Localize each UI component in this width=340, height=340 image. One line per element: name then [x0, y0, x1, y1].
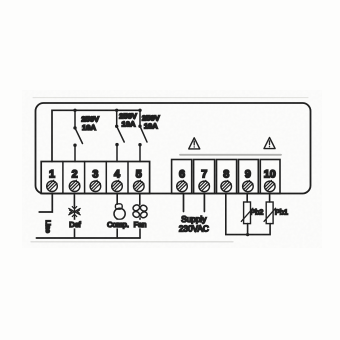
scan artifact streak top — [33, 97, 308, 99]
wire: fan to bottom bus — [139, 218, 141, 238]
wire: terminal 2 to defrost heater — [73, 194, 75, 206]
probe Pb2 (thermistor) — [241, 202, 253, 235]
wire: terminal 8 to probe common — [226, 194, 270, 235]
wire: terminal 1 to Line — [39, 194, 52, 213]
label Fan — [133, 220, 148, 229]
terminal 7 — [194, 160, 215, 194]
fan icon — [132, 204, 148, 219]
wire: terminal 6 supply — [183, 194, 185, 212]
terminal 1 — [47, 169, 58, 192]
terminal 9 — [239, 160, 259, 194]
label Comp. — [107, 220, 130, 229]
wire: compressor to bottom bus — [116, 220, 118, 238]
label Def — [68, 220, 83, 229]
wire: terminal 9 to Pb2 — [246, 194, 248, 203]
scan artifact streak above right terminal block — [180, 154, 281, 156]
wire: bottom return bus — [36, 237, 140, 239]
relay contact K2 (above terminal 4) — [115, 110, 124, 161]
terminal 2 — [69, 169, 80, 192]
wire: terminal 5 to fan — [139, 194, 141, 205]
node: Pb2 junction — [246, 233, 249, 236]
warning symbol W2 — [264, 138, 275, 149]
terminal 10 — [260, 160, 280, 194]
terminal block 1-5 — [41, 162, 149, 194]
wire: defrost to bottom bus — [74, 218, 76, 239]
defrost icon (snowflake) — [69, 206, 80, 218]
terminal 3 — [90, 169, 101, 192]
wire: terminal 10 to Pb1 — [269, 194, 271, 203]
scan artifact streak bottom — [31, 241, 233, 243]
wire: terminal 4 to compressor — [116, 194, 118, 205]
wire: terminal 7 supply — [203, 194, 205, 212]
label 250V 10A for K2 — [119, 111, 138, 128]
warning symbol W1 — [189, 138, 200, 149]
controller outline — [36, 103, 311, 194]
relay contact K1 (above terminal 2) — [73, 110, 82, 161]
relay contact K3 (above terminal 5) — [138, 110, 147, 161]
terminal 4 — [112, 169, 123, 192]
label Supply 230VAC — [179, 215, 209, 234]
paper noise overlay — [0, 0, 1, 1]
probe Pb1 (thermistor) — [264, 202, 276, 224]
wire: common bus from terminal 1 to relay contacts — [52, 109, 142, 162]
label 250V 10A for K3 — [142, 113, 161, 130]
terminal 5 — [134, 169, 145, 192]
terminal 8 — [217, 160, 237, 194]
terminal 6 — [172, 160, 192, 194]
label 250V 10A for K1 — [81, 114, 100, 132]
compressor icon — [114, 204, 125, 220]
